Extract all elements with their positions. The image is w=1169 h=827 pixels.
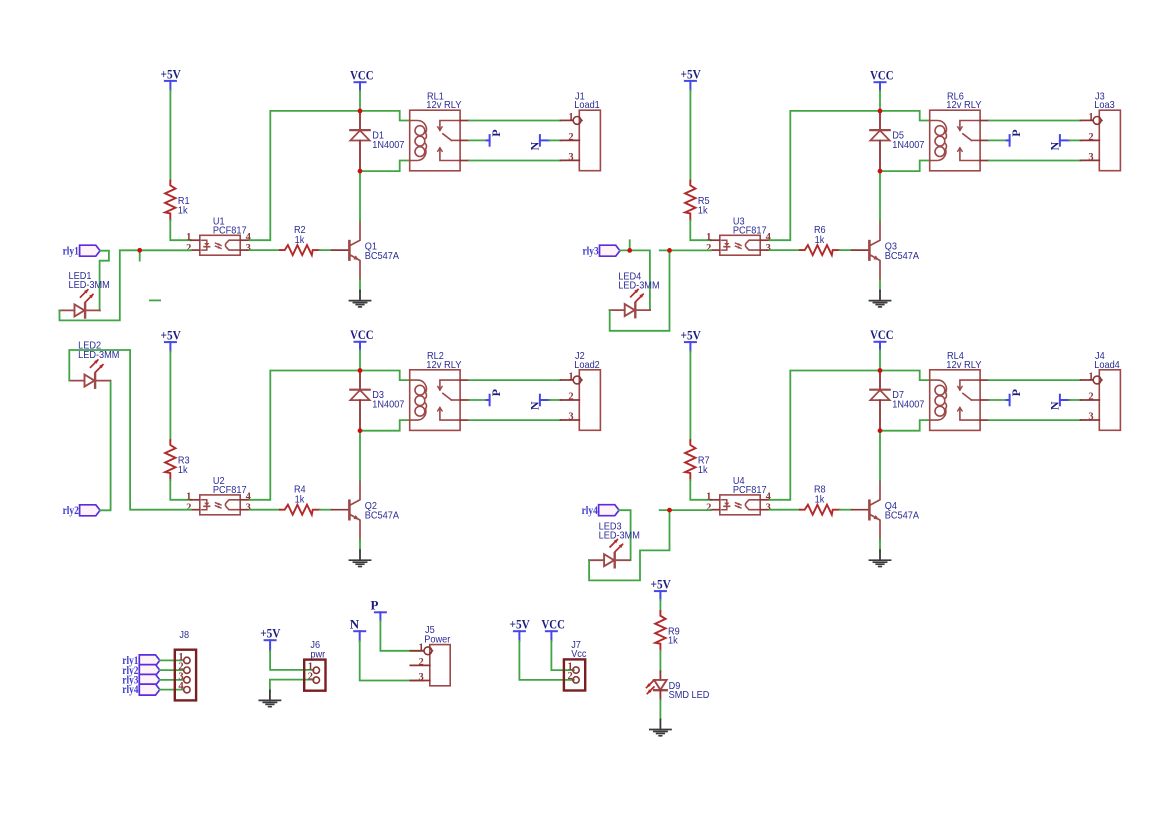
svg-text:1: 1 [186, 491, 191, 502]
connector J6 pwr [304, 660, 325, 691]
wire opto pin4 to VCC node [250, 111, 361, 240]
wire LED4 anode loop to opto pin2 [610, 250, 670, 330]
svg-text:PCF817: PCF817 [733, 485, 767, 496]
optocoupler U2 PCF817 [200, 495, 240, 515]
net flag rly2 [80, 505, 101, 516]
wire rly1 to LED1 [100, 251, 109, 311]
svg-text:BC547A: BC547A [885, 511, 919, 522]
wire node to relay coil bottom [880, 420, 930, 431]
resistor R3 1k [165, 440, 175, 480]
transistor Q2 BC547A [332, 509, 349, 511]
net flag rly3 [600, 245, 621, 256]
svg-text:PCF817: PCF817 [213, 485, 247, 496]
optocoupler U3 PCF817 [720, 235, 760, 255]
connector J7 Vcc [564, 659, 585, 690]
svg-text:BC547A: BC547A [885, 251, 919, 262]
svg-text:+5V: +5V [651, 577, 672, 592]
svg-text:3: 3 [1088, 411, 1093, 422]
resistor R1 1k [165, 181, 175, 221]
svg-text:J8: J8 [179, 630, 189, 641]
relay RL4 12v RLY [930, 370, 980, 431]
wire opto pin4 to VCC node [770, 111, 881, 240]
svg-text:1k: 1k [815, 235, 826, 246]
supply P at relay [1007, 399, 1010, 401]
wire VCC to J7 pin1 [551, 641, 574, 670]
wire VCC to node [879, 91, 881, 111]
wire R9 to D9 [659, 651, 661, 672]
junction VCC node ch3 [878, 109, 883, 114]
svg-text:LED-3MM: LED-3MM [618, 281, 659, 292]
wire free end into node [660, 509, 711, 511]
svg-text:1k: 1k [295, 235, 306, 246]
wire R1 to opto pin1 [170, 220, 191, 240]
svg-text:1: 1 [1088, 371, 1093, 382]
resistor R4 1k [280, 505, 320, 515]
svg-text:1N4007: 1N4007 [372, 400, 404, 411]
optocoupler U4 PCF817 [720, 495, 760, 515]
svg-text:Load4: Load4 [1094, 360, 1120, 371]
optocoupler U1 PCF817 [200, 235, 240, 255]
connector J3 Loa3 [1099, 110, 1120, 171]
wire relay NO contact to connector pin1 [469, 120, 561, 122]
svg-text:rly2: rly2 [63, 505, 79, 517]
wire opto pin3 to R4 [250, 509, 281, 511]
ground at D9 [659, 720, 661, 730]
svg-text:BC547A: BC547A [365, 511, 399, 522]
wire node to relay coil top [360, 371, 410, 381]
wire P to J5 pin1 [380, 621, 422, 651]
connector J2 Load2 [579, 370, 600, 431]
svg-text:3: 3 [419, 672, 424, 683]
LED LED4 LED-3MM [610, 309, 625, 311]
net flag rly1 [80, 245, 101, 256]
diode D5 1N4007 [879, 111, 881, 130]
wire relay common to P [989, 399, 1007, 401]
svg-text:rly4: rly4 [122, 684, 138, 696]
wire collector [359, 171, 361, 221]
wire VCC to node [359, 91, 361, 111]
svg-text:2: 2 [1088, 132, 1093, 143]
svg-text:12v RLY: 12v RLY [426, 360, 461, 371]
wire relay NO contact to connector pin1 [989, 379, 1081, 381]
wire node to relay coil top [360, 111, 410, 121]
wire LED3 anode loop to opto pin2 [589, 510, 669, 580]
supply P at relay [1007, 139, 1010, 141]
svg-text:1k: 1k [815, 495, 826, 506]
svg-text:N: N [1048, 142, 1062, 151]
svg-text:VCC: VCC [350, 68, 373, 83]
wire LED1 anode loop to opto pin2 [60, 250, 192, 320]
svg-text:P: P [371, 598, 379, 613]
svg-text:1: 1 [419, 642, 424, 653]
wire rly2 up to LED2 cathode [100, 381, 110, 511]
wire N to J5 pin3 [360, 641, 423, 681]
supply P at relay [487, 399, 490, 401]
supply N at connector [1060, 399, 1069, 401]
wire +5V to J6 pin1 [270, 651, 314, 670]
svg-text:1N4007: 1N4007 [372, 140, 404, 151]
svg-text:Vcc: Vcc [571, 649, 586, 660]
junction collector node ch2 [358, 428, 363, 433]
resistor R7 1k [685, 440, 695, 480]
wire collector [879, 171, 881, 221]
svg-text:1: 1 [186, 232, 191, 243]
wire R7 to opto pin1 [690, 480, 711, 500]
wire +5V to R5 [689, 90, 691, 180]
junction VCC node ch1 [358, 109, 363, 114]
connector J1 Load1 [579, 110, 600, 171]
junction collector node ch3 [878, 169, 883, 174]
ground [879, 550, 881, 560]
svg-text:+5V: +5V [161, 66, 182, 81]
svg-text:Loa3: Loa3 [1094, 100, 1115, 111]
svg-text:N: N [1048, 401, 1062, 410]
wire collector [879, 431, 881, 481]
wire stub up at rly3 node [629, 240, 631, 250]
svg-text:LED-3MM: LED-3MM [69, 280, 110, 291]
svg-text:Load1: Load1 [574, 100, 600, 111]
svg-text:1k: 1k [295, 495, 306, 506]
svg-text:P: P [1009, 129, 1023, 136]
wire rly3 to LED4 [620, 250, 650, 310]
svg-text:1k: 1k [698, 465, 709, 476]
wire VCC to node [879, 350, 881, 370]
net flag rly4 [599, 505, 620, 516]
svg-text:VCC: VCC [870, 68, 893, 83]
wire N to connector pin2 [549, 399, 560, 401]
wire opto pin3 to R8 [770, 509, 801, 511]
svg-text:3: 3 [1088, 152, 1093, 163]
supply N at connector [1060, 139, 1069, 141]
wire opto pin3 to R2 [250, 249, 281, 251]
svg-text:N: N [528, 401, 542, 410]
wire N to connector pin2 [1069, 139, 1080, 141]
svg-text:VCC: VCC [870, 327, 893, 342]
wire R5 to opto pin1 [690, 220, 711, 240]
wire opto pin3 to R6 [770, 249, 801, 251]
resistor R5 1k [685, 181, 695, 221]
wire opto pin4 to VCC node [770, 371, 881, 500]
wires flags to J8 [160, 659, 184, 661]
svg-text:+5V: +5V [681, 328, 702, 343]
diode D3 1N4007 [359, 371, 361, 390]
svg-text:+5V: +5V [510, 617, 531, 632]
svg-text:Load2: Load2 [574, 360, 600, 371]
svg-text:2: 2 [568, 132, 573, 143]
connector J4 Load4 [1099, 370, 1120, 431]
wire node to relay coil bottom [360, 161, 410, 172]
wire stub at rly1 node [139, 250, 141, 260]
svg-text:12v RLY: 12v RLY [426, 100, 461, 111]
svg-text:N: N [350, 617, 360, 632]
junction collector node ch1 [358, 169, 363, 174]
svg-text:LED-3MM: LED-3MM [78, 350, 119, 361]
svg-text:1N4007: 1N4007 [892, 140, 924, 151]
wire R4 to base [320, 509, 331, 511]
svg-text:PCF817: PCF817 [213, 226, 247, 237]
wire R8 to base [840, 509, 851, 511]
resistor R6 1k [800, 245, 840, 255]
svg-text:12v RLY: 12v RLY [946, 360, 981, 371]
wire R2 to base [320, 249, 331, 251]
svg-text:P: P [489, 389, 503, 396]
ground [879, 291, 881, 301]
supply N at connector [540, 139, 549, 141]
svg-text:2: 2 [1088, 391, 1093, 402]
svg-text:+5V: +5V [161, 328, 182, 343]
wire +5V to R3 [169, 351, 171, 440]
junction opto3 input node [667, 248, 672, 253]
wire rly4 down to LED3 [619, 510, 631, 560]
svg-text:2: 2 [567, 671, 572, 682]
wire relay NC contact to connector pin3 [989, 160, 1081, 162]
wire node to relay coil bottom [880, 161, 930, 172]
transistor Q3 BC547A [852, 249, 869, 251]
svg-text:3: 3 [246, 243, 251, 254]
relay RL1 12v RLY [410, 110, 460, 171]
svg-text:SMD LED: SMD LED [669, 690, 710, 701]
connector J8 box [175, 650, 196, 701]
resistor R2 1k [280, 245, 320, 255]
wire node to relay coil bottom [360, 420, 410, 431]
svg-text:Power: Power [424, 634, 451, 645]
svg-text:rly3: rly3 [583, 245, 599, 257]
connector J5 Power [430, 645, 450, 686]
junction rly1 node [137, 248, 142, 253]
svg-text:3: 3 [246, 503, 251, 514]
wire N to connector pin2 [1069, 399, 1080, 401]
wire relay common to P [469, 139, 487, 141]
diode D7 1N4007 [879, 371, 881, 390]
wire relay NO contact to connector pin1 [469, 379, 561, 381]
wire emitter to ground [879, 280, 881, 291]
wire J6 pin2 to ground [270, 680, 314, 691]
svg-text:1k: 1k [178, 465, 189, 476]
transistor Q4 BC547A [852, 509, 869, 511]
wire relay common to P [469, 399, 487, 401]
svg-text:1: 1 [706, 491, 711, 502]
wire R6 to base [840, 249, 851, 251]
svg-text:PCF817: PCF817 [733, 226, 767, 237]
junction opto4 input node [667, 508, 672, 513]
wire opto pin4 to VCC node [250, 371, 361, 500]
wire emitter to ground [359, 280, 361, 291]
svg-text:3: 3 [568, 411, 573, 422]
diode D1 1N4007 [359, 111, 361, 130]
wire node to relay coil top [880, 371, 930, 381]
svg-text:1: 1 [1088, 112, 1093, 123]
supply P at relay [487, 139, 490, 141]
wire relay NO contact to connector pin1 [989, 120, 1081, 122]
wire relay NC contact to connector pin3 [469, 160, 561, 162]
wire +5V to R7 [689, 351, 691, 440]
relay RL2 12v RLY [410, 370, 460, 431]
junction VCC node ch4 [878, 368, 883, 373]
svg-text:1k: 1k [668, 636, 679, 647]
wire relay NC contact to connector pin3 [469, 419, 561, 421]
wire collector [359, 431, 361, 481]
relay RL6 12v RLY [930, 110, 980, 171]
svg-text:3: 3 [568, 152, 573, 163]
wire R3 to opto pin1 [170, 480, 191, 500]
LED D9 SMD LED [659, 671, 661, 680]
wire +5V to R9 [659, 600, 661, 611]
wire emitter to ground [359, 539, 361, 550]
wire D9 to ground [659, 700, 661, 719]
transistor Q1 BC547A [332, 249, 349, 251]
supply N at connector [540, 399, 549, 401]
wire +5V to J7 pin2 [519, 641, 574, 680]
svg-text:2: 2 [419, 657, 424, 668]
wire free end into node [660, 249, 711, 251]
svg-text:VCC: VCC [542, 617, 565, 632]
svg-text:2: 2 [706, 243, 711, 254]
ground at J6 [269, 690, 271, 700]
wire relay common to P [989, 139, 1007, 141]
svg-text:LED-3MM: LED-3MM [599, 530, 640, 541]
resistor R9 1k [655, 611, 665, 651]
svg-text:2: 2 [568, 391, 573, 402]
wire VCC to node [359, 350, 361, 370]
wire lone segment [150, 299, 160, 301]
svg-text:rly1: rly1 [63, 245, 79, 257]
svg-text:N: N [528, 142, 542, 151]
svg-text:2: 2 [186, 243, 191, 254]
svg-text:+5V: +5V [260, 626, 281, 641]
svg-text:3: 3 [766, 243, 771, 254]
wire emitter to ground [879, 539, 881, 550]
LED LED3 LED-3MM [589, 559, 604, 561]
net flags rly1-rly4 at J8 [139, 655, 160, 666]
svg-text:2: 2 [186, 503, 191, 514]
junction VCC node ch2 [358, 368, 363, 373]
svg-text:pwr: pwr [310, 649, 325, 660]
junction collector node ch4 [878, 428, 883, 433]
svg-text:1k: 1k [698, 205, 709, 216]
svg-text:2: 2 [706, 503, 711, 514]
LED LED2 LED-3MM [69, 380, 84, 382]
wire node to relay coil top [880, 111, 930, 121]
junction rly3 tip node [627, 248, 632, 253]
svg-text:3: 3 [766, 503, 771, 514]
svg-text:1: 1 [568, 112, 573, 123]
svg-text:VCC: VCC [350, 327, 373, 342]
wire relay NC contact to connector pin3 [989, 419, 1081, 421]
svg-text:12v RLY: 12v RLY [946, 100, 981, 111]
wire LED2 anode loop to opto pin2 [69, 350, 191, 510]
svg-text:+5V: +5V [681, 66, 702, 81]
wire N to connector pin2 [549, 139, 560, 141]
svg-text:P: P [1009, 389, 1023, 396]
ground [359, 291, 361, 301]
svg-text:4: 4 [178, 681, 184, 692]
svg-text:BC547A: BC547A [365, 251, 399, 262]
LED LED1 LED-3MM [59, 309, 74, 311]
svg-text:rly4: rly4 [582, 505, 598, 517]
svg-text:1: 1 [568, 371, 573, 382]
svg-text:1k: 1k [178, 205, 189, 216]
svg-text:P: P [489, 129, 503, 136]
svg-text:1: 1 [706, 232, 711, 243]
resistor R8 1k [800, 505, 840, 515]
wire +5V to R1 [169, 90, 171, 180]
ground [359, 550, 361, 560]
svg-text:2: 2 [308, 672, 313, 683]
svg-text:1N4007: 1N4007 [892, 400, 924, 411]
